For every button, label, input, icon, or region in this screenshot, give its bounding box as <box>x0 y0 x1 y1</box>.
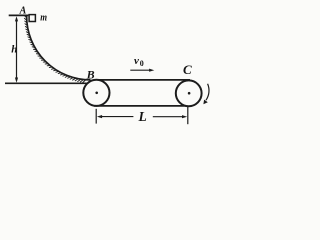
svg-text:A: A <box>19 5 27 16</box>
svg-text:h: h <box>11 44 17 56</box>
slope hatching <box>24 15 86 82</box>
svg-text:0: 0 <box>140 59 144 68</box>
L dimension right tick <box>187 107 189 124</box>
svg-text:m: m <box>40 12 47 24</box>
svg-text:L: L <box>137 109 146 124</box>
pulley B <box>83 80 109 106</box>
svg-text:C: C <box>183 62 192 77</box>
belt bottom line <box>94 105 190 107</box>
L dimension left tick <box>95 109 97 124</box>
pulley B axle dot <box>95 92 98 95</box>
svg-text:v: v <box>134 55 139 67</box>
rotation arrow at C <box>206 84 209 100</box>
h dimension arrow <box>16 19 18 81</box>
L dimension left arrow <box>102 116 134 118</box>
L dimension right arrow <box>153 116 183 118</box>
ground line <box>5 82 87 84</box>
pulley C axle dot <box>188 92 191 95</box>
belt top line <box>94 79 190 81</box>
v0 arrow <box>130 69 150 71</box>
curved slope <box>27 16 91 80</box>
platform line at A <box>9 14 29 16</box>
block m <box>29 15 35 22</box>
pulley C <box>176 80 202 106</box>
